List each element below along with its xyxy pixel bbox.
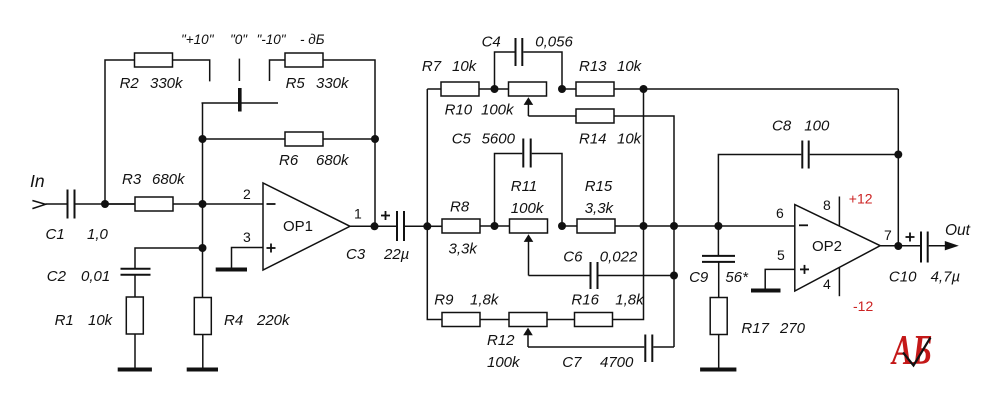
wire C1 to node A: [76, 203, 136, 205]
svg-text:R6: R6: [279, 152, 299, 169]
svg-text:10k: 10k: [452, 58, 478, 75]
svg-text:"-10": "-10": [257, 32, 287, 47]
wire right riser down to output node: [897, 89, 899, 246]
node L junction: [558, 222, 566, 230]
wire OP2 output to C10: [880, 245, 920, 247]
svg-text:10k: 10k: [617, 131, 643, 148]
svg-text:C3: C3: [346, 246, 366, 263]
node H junction: [491, 85, 499, 93]
OP2 minus symbol: [799, 224, 808, 226]
capacitor C10: [920, 232, 922, 263]
svg-text:100k: 100k: [481, 102, 515, 119]
wire node I to R13: [562, 88, 576, 90]
svg-text:R12: R12: [487, 332, 515, 349]
capacitor C3: [396, 211, 398, 241]
svg-text:270: 270: [779, 320, 806, 337]
wire In to C1: [46, 203, 67, 205]
wire R14 right down to C7 corner: [614, 116, 674, 347]
wire node G to R8: [427, 225, 442, 227]
svg-text:2: 2: [243, 186, 251, 202]
capacitor C8: [801, 141, 803, 169]
switch common arm wire: [202, 102, 279, 104]
OP1 plus symbol: [267, 247, 276, 249]
svg-text:330k: 330k: [150, 75, 184, 92]
resistor R2: [135, 53, 173, 67]
wire C2 to R1: [134, 275, 136, 297]
resistor R4: [194, 298, 211, 335]
capacitor C4 loop left: [495, 52, 515, 89]
wire node A to R3: [105, 203, 135, 205]
svg-text:"+10": "+10": [181, 32, 215, 47]
potentiometer R11: [510, 219, 548, 233]
svg-text:"0": "0": [230, 32, 248, 47]
wire OP1 pin 3 to ground: [232, 248, 264, 268]
svg-text:0,022: 0,022: [600, 249, 638, 266]
node M junction: [640, 222, 648, 230]
svg-text:3,3k: 3,3k: [449, 241, 479, 258]
svg-text:3: 3: [243, 229, 251, 245]
potentiometer R12: [509, 313, 547, 327]
node In: input arrow: [32, 201, 45, 209]
svg-text:5: 5: [777, 247, 785, 263]
node K junction: [491, 222, 499, 230]
svg-text:4,7µ: 4,7µ: [931, 269, 961, 286]
OP2 plus symbol: [800, 268, 809, 270]
OP1 minus symbol: [267, 203, 276, 205]
wire node L to R15: [562, 225, 577, 227]
wire R1 to ground: [134, 334, 136, 368]
svg-text:C10: C10: [889, 269, 917, 286]
svg-text:100k: 100k: [487, 354, 521, 371]
svg-text:6: 6: [776, 205, 784, 221]
svg-text:C5: C5: [452, 131, 472, 148]
op-amp OP2: [795, 205, 880, 291]
wire C8 to right riser: [810, 154, 899, 156]
capacitor C9 stem: [717, 226, 719, 255]
wire C10 to Out: [929, 245, 946, 247]
svg-text:R11: R11: [511, 178, 537, 195]
resistor R6: [285, 132, 323, 146]
svg-text:- дБ: - дБ: [300, 32, 325, 47]
svg-text:R14: R14: [579, 131, 607, 148]
wire R7 to node H: [479, 88, 509, 90]
node A junction: [101, 200, 109, 208]
wire C6 to node P: [599, 275, 675, 277]
svg-text:22µ: 22µ: [383, 246, 409, 263]
pin 8 stub: [838, 197, 840, 226]
svg-text:1,8k: 1,8k: [615, 292, 645, 309]
pin 4 stub: [838, 268, 840, 297]
wire C8 branch left riser: [718, 155, 801, 227]
svg-text:R4: R4: [224, 312, 243, 329]
svg-text:100k: 100k: [511, 200, 545, 217]
wire stage2 left riser: [427, 89, 442, 320]
svg-text:R9: R9: [434, 292, 454, 309]
capacitor C6: [590, 262, 592, 289]
wire vertical node B to node D to node E: [202, 139, 204, 298]
svg-text:C8: C8: [772, 118, 792, 135]
svg-text:Out: Out: [945, 222, 971, 239]
node I junction: [558, 85, 566, 93]
capacitor C4: [515, 38, 517, 66]
R11 wiper arrow: [524, 234, 534, 242]
wire OP2 pin 5 to ground: [765, 269, 795, 288]
C3 plus sign: [381, 215, 390, 217]
capacitor C5: [522, 139, 524, 168]
svg-text:7: 7: [884, 227, 892, 243]
svg-text:R5: R5: [286, 75, 306, 92]
wire riser top to R7: [427, 88, 441, 90]
resistor R9: [442, 313, 480, 327]
wire R10 wiper to R14: [528, 115, 576, 117]
ground R4: [187, 368, 218, 372]
node J junction: [640, 85, 648, 93]
resistor R1: [126, 297, 143, 334]
switch contact -10 wire to R5: [270, 60, 286, 81]
node C junction R6 right: [371, 135, 379, 143]
capacitor C1: [67, 190, 69, 219]
svg-text:8: 8: [823, 197, 831, 213]
svg-text:0,01: 0,01: [81, 268, 110, 285]
node O junction: [714, 222, 722, 230]
ground R17: [700, 368, 736, 372]
svg-text:R15: R15: [585, 178, 613, 195]
svg-text:R3: R3: [122, 171, 142, 188]
svg-text:АБ: АБ: [890, 328, 932, 374]
svg-text:R13: R13: [579, 58, 607, 75]
svg-text:R1: R1: [55, 312, 74, 329]
svg-text:10k: 10k: [617, 58, 643, 75]
svg-text:C2: C2: [47, 268, 67, 285]
wire R12 to R16: [547, 319, 575, 321]
svg-text:OP2: OP2: [812, 238, 842, 255]
node R output junction: [894, 242, 902, 250]
svg-text:680k: 680k: [152, 171, 186, 188]
wire R17 to ground: [718, 335, 720, 369]
wire R3 to OP1 pin 2: [173, 203, 263, 205]
node N junction: [670, 222, 678, 230]
switch contact 0: [238, 59, 240, 81]
switch SA1 wiper bar: [238, 88, 242, 112]
svg-text:0,056: 0,056: [535, 34, 573, 51]
node Q junction: [894, 151, 902, 159]
svg-text:R10: R10: [445, 102, 473, 119]
capacitor C9: [702, 255, 735, 257]
wire C9 to R17: [718, 262, 720, 298]
resistor R14: [576, 109, 614, 123]
capacitor C5 loop right: [532, 154, 562, 227]
svg-text:C6: C6: [563, 249, 583, 266]
wire node B to R6: [203, 138, 286, 140]
svg-text:In: In: [30, 171, 45, 191]
wire R5 to right riser: [323, 60, 375, 226]
svg-text:C1: C1: [46, 226, 65, 243]
svg-text:C7: C7: [562, 354, 582, 371]
wire switch common down to node B: [202, 103, 204, 139]
svg-text:220k: 220k: [256, 312, 291, 329]
node F junction pin1: [371, 222, 379, 230]
capacitor C2: [121, 268, 151, 270]
resistor R15: [577, 219, 615, 233]
wire R6 to right riser: [323, 138, 375, 140]
wire R2 to switch contact +10: [173, 60, 210, 81]
resistor R5: [285, 53, 323, 67]
capacitor C4 loop right: [523, 52, 562, 89]
potentiometer R10: [509, 82, 547, 96]
wire R13 to top feedback corner: [614, 88, 898, 90]
wire R12 wiper to C7: [528, 346, 644, 348]
svg-text:1,8k: 1,8k: [470, 292, 500, 309]
svg-text:R16: R16: [571, 292, 599, 309]
wire C3 to node G: [405, 225, 442, 227]
svg-text:C9: C9: [689, 269, 709, 286]
wire R8 to node K: [480, 225, 510, 227]
resistor R8: [442, 219, 480, 233]
node B junction R6 left: [199, 135, 207, 143]
node E junction C2/R4: [199, 244, 207, 252]
svg-text:C4: C4: [482, 34, 501, 51]
R12 wiper arrow: [523, 328, 533, 336]
ground OP2 pin5: [751, 289, 781, 293]
svg-text:+12: +12: [849, 191, 873, 207]
svg-text:R8: R8: [450, 199, 470, 216]
svg-text:680k: 680k: [316, 152, 350, 169]
resistor R17: [710, 298, 727, 335]
svg-text:1: 1: [354, 206, 362, 222]
svg-text:-12: -12: [853, 298, 873, 314]
resistor R3: [135, 197, 173, 211]
wire C7 to R14 riser: [653, 346, 674, 348]
capacitor C5 loop: [495, 154, 523, 227]
svg-text:100: 100: [804, 118, 830, 135]
wire R15 to OP2 pin 6: [615, 225, 795, 227]
wire left vertical riser to R2: [105, 60, 135, 204]
svg-text:3,3k: 3,3k: [585, 200, 615, 217]
svg-text:4700: 4700: [600, 354, 634, 371]
svg-text:5600: 5600: [482, 131, 516, 148]
node Out arrow: [945, 241, 959, 250]
wire R4 to ground: [202, 335, 204, 369]
wire R16 up to node J riser: [613, 89, 644, 320]
resistor R7: [441, 82, 479, 96]
svg-text:R2: R2: [120, 75, 140, 92]
svg-text:4: 4: [823, 276, 831, 292]
svg-text:56*: 56*: [725, 269, 749, 286]
wire R11 wiper to C6: [529, 275, 590, 277]
C10 plus sign: [906, 236, 915, 238]
svg-text:OP1: OP1: [283, 218, 313, 235]
svg-text:R17: R17: [741, 320, 769, 337]
node G junction: [423, 222, 431, 230]
resistor R16: [575, 313, 613, 327]
wire R9 to R12: [480, 319, 509, 321]
svg-text:R7: R7: [422, 58, 442, 75]
ground OP1 pin3: [216, 268, 247, 272]
node D junction: [199, 200, 207, 208]
op-amp OP1: [263, 183, 350, 270]
svg-text:1,0: 1,0: [87, 226, 109, 243]
resistor R13: [576, 82, 614, 96]
R10 wiper arrow: [524, 97, 534, 105]
wire node E to C2: [135, 248, 203, 268]
wire OP1 output to node F: [350, 225, 396, 227]
node P junction: [670, 272, 678, 280]
svg-text:10k: 10k: [88, 312, 114, 329]
ground R1: [118, 368, 152, 372]
svg-text:330k: 330k: [316, 75, 350, 92]
capacitor C7: [644, 335, 646, 363]
